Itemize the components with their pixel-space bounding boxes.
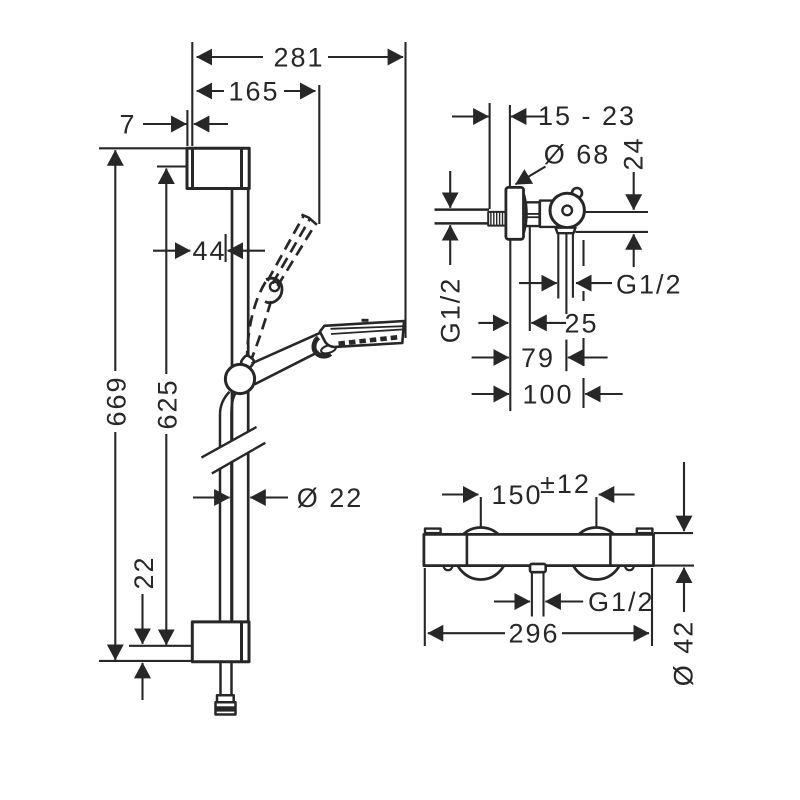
dim diameter 42	[654, 462, 694, 612]
svg-text:625: 625	[153, 378, 183, 429]
dim 44	[153, 234, 265, 262]
svg-text:165: 165	[228, 77, 279, 107]
dim 296	[425, 568, 652, 646]
shower head	[320, 321, 404, 347]
dim 100	[472, 393, 623, 395]
dashed position collar	[265, 278, 282, 302]
spray nozzles	[339, 337, 400, 344]
svg-text:22: 22	[129, 555, 159, 589]
svg-text:7: 7	[119, 110, 136, 140]
dim 165	[197, 90, 316, 92]
escutcheon side bulge	[524, 194, 527, 233]
right stub	[637, 529, 653, 537]
svg-text:±12: ±12	[540, 469, 591, 499]
bracket top (wall holder)	[187, 148, 249, 188]
svg-text:Ø 22: Ø 22	[297, 483, 364, 513]
wire: extension 150 right	[595, 497, 597, 532]
dim 25	[478, 322, 566, 324]
outlet stub extension lines	[510, 226, 583, 411]
svg-text:25: 25	[564, 308, 598, 338]
svg-text:44: 44	[192, 236, 226, 266]
svg-text:G1/2: G1/2	[588, 587, 655, 617]
handle ear	[572, 188, 582, 198]
svg-text:296: 296	[508, 619, 559, 649]
shut-off handle	[550, 193, 584, 227]
left stub	[425, 529, 441, 537]
svg-text:24: 24	[619, 136, 649, 170]
small bump right	[625, 561, 634, 570]
hose end below bracket	[216, 662, 236, 715]
escutcheon (diameter 68)	[506, 187, 524, 239]
wire: wall extension line (top left)	[191, 42, 193, 146]
head button	[362, 319, 369, 322]
dim 150 +-12	[442, 493, 635, 495]
hose nut dark band	[216, 706, 236, 711]
label G1/2 left (rotated)	[449, 171, 451, 265]
handle rod	[252, 331, 324, 384]
svg-text:669: 669	[102, 375, 132, 426]
wire: extension 150 left	[480, 497, 482, 528]
wire: escutcheon extension	[509, 105, 511, 187]
dim diameter 22	[193, 496, 288, 498]
svg-text:G1/2: G1/2	[616, 270, 683, 300]
svg-text:Ø 42: Ø 42	[669, 620, 699, 687]
svg-text:281: 281	[273, 43, 324, 73]
dim 15-23	[452, 115, 545, 117]
svg-text:G1/2: G1/2	[436, 277, 466, 344]
valve body segment	[540, 201, 558, 227]
rail (vertical bar)	[232, 189, 248, 622]
svg-text:79: 79	[521, 343, 555, 373]
hose along rail	[220, 392, 236, 622]
bracket bottom	[192, 622, 249, 662]
svg-text:150: 150	[491, 480, 542, 510]
dim G1/2 mixer	[494, 600, 583, 602]
outlet nub	[530, 564, 546, 572]
dim 79	[472, 356, 608, 358]
dim 669	[99, 148, 192, 661]
dim 281	[197, 56, 403, 58]
knob release tab	[240, 354, 255, 369]
dashed alt position of hand shower	[247, 216, 316, 359]
slider knob	[225, 364, 254, 393]
dim 7	[143, 110, 228, 146]
svg-text:15 - 23: 15 - 23	[538, 101, 636, 131]
handle screw	[562, 206, 572, 216]
wire: wall line	[489, 103, 491, 209]
dim 22 bottom left	[141, 594, 143, 700]
valve dome left	[455, 528, 507, 580]
break symbol on rail	[200, 429, 267, 472]
connector nut	[526, 202, 540, 226]
cap separation lines	[466, 534, 469, 565]
collar (swivel cone)	[314, 338, 331, 357]
svg-text:100: 100	[522, 380, 573, 410]
threaded nipple	[488, 212, 505, 226]
outlet foot	[556, 228, 576, 234]
svg-text:Ø 68: Ø 68	[544, 140, 611, 170]
outlet pipe	[532, 572, 544, 616]
dim G1/2 right	[519, 282, 612, 284]
wire: extension line 281 right	[404, 42, 406, 338]
wire: extension line 165 right	[318, 85, 320, 224]
dashed head top cap	[302, 215, 318, 225]
mixer body bar	[424, 534, 654, 565]
dim 625	[129, 167, 192, 646]
valve dome right	[570, 528, 622, 580]
supply pipe	[435, 210, 490, 224]
small bump left	[444, 561, 453, 570]
